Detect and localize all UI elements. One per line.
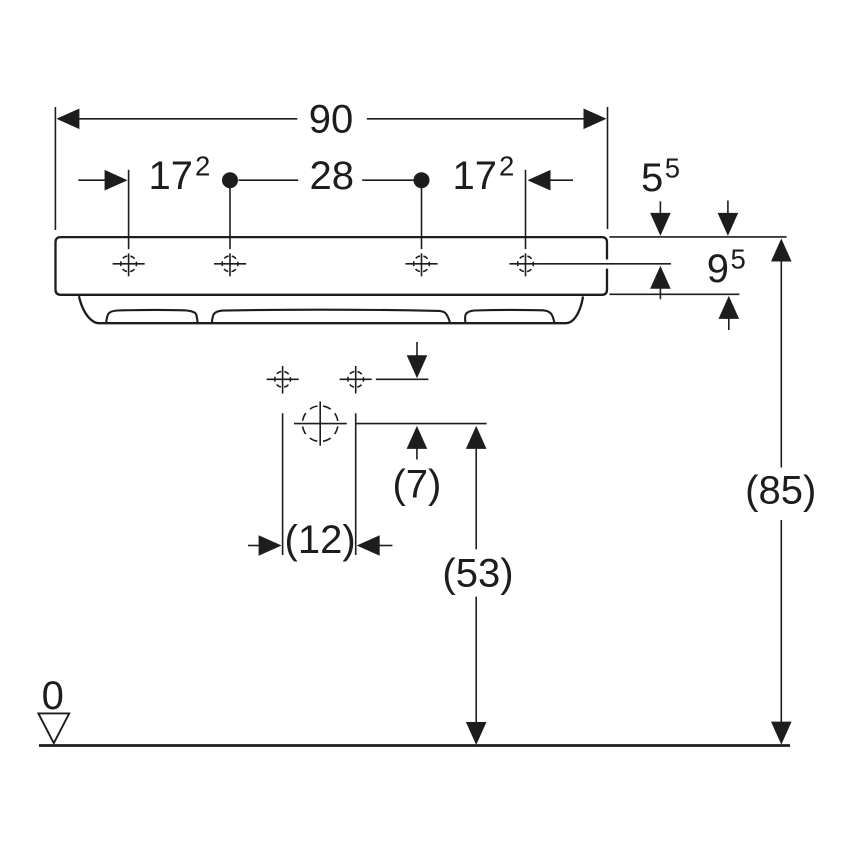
svg-text:(85): (85) (745, 469, 816, 513)
svg-text:0: 0 (42, 674, 64, 718)
svg-text:(12): (12) (285, 518, 356, 562)
svg-text:(7): (7) (392, 463, 441, 507)
svg-text:90: 90 (309, 98, 354, 142)
svg-text:28: 28 (310, 154, 355, 198)
svg-text:(53): (53) (442, 552, 513, 596)
